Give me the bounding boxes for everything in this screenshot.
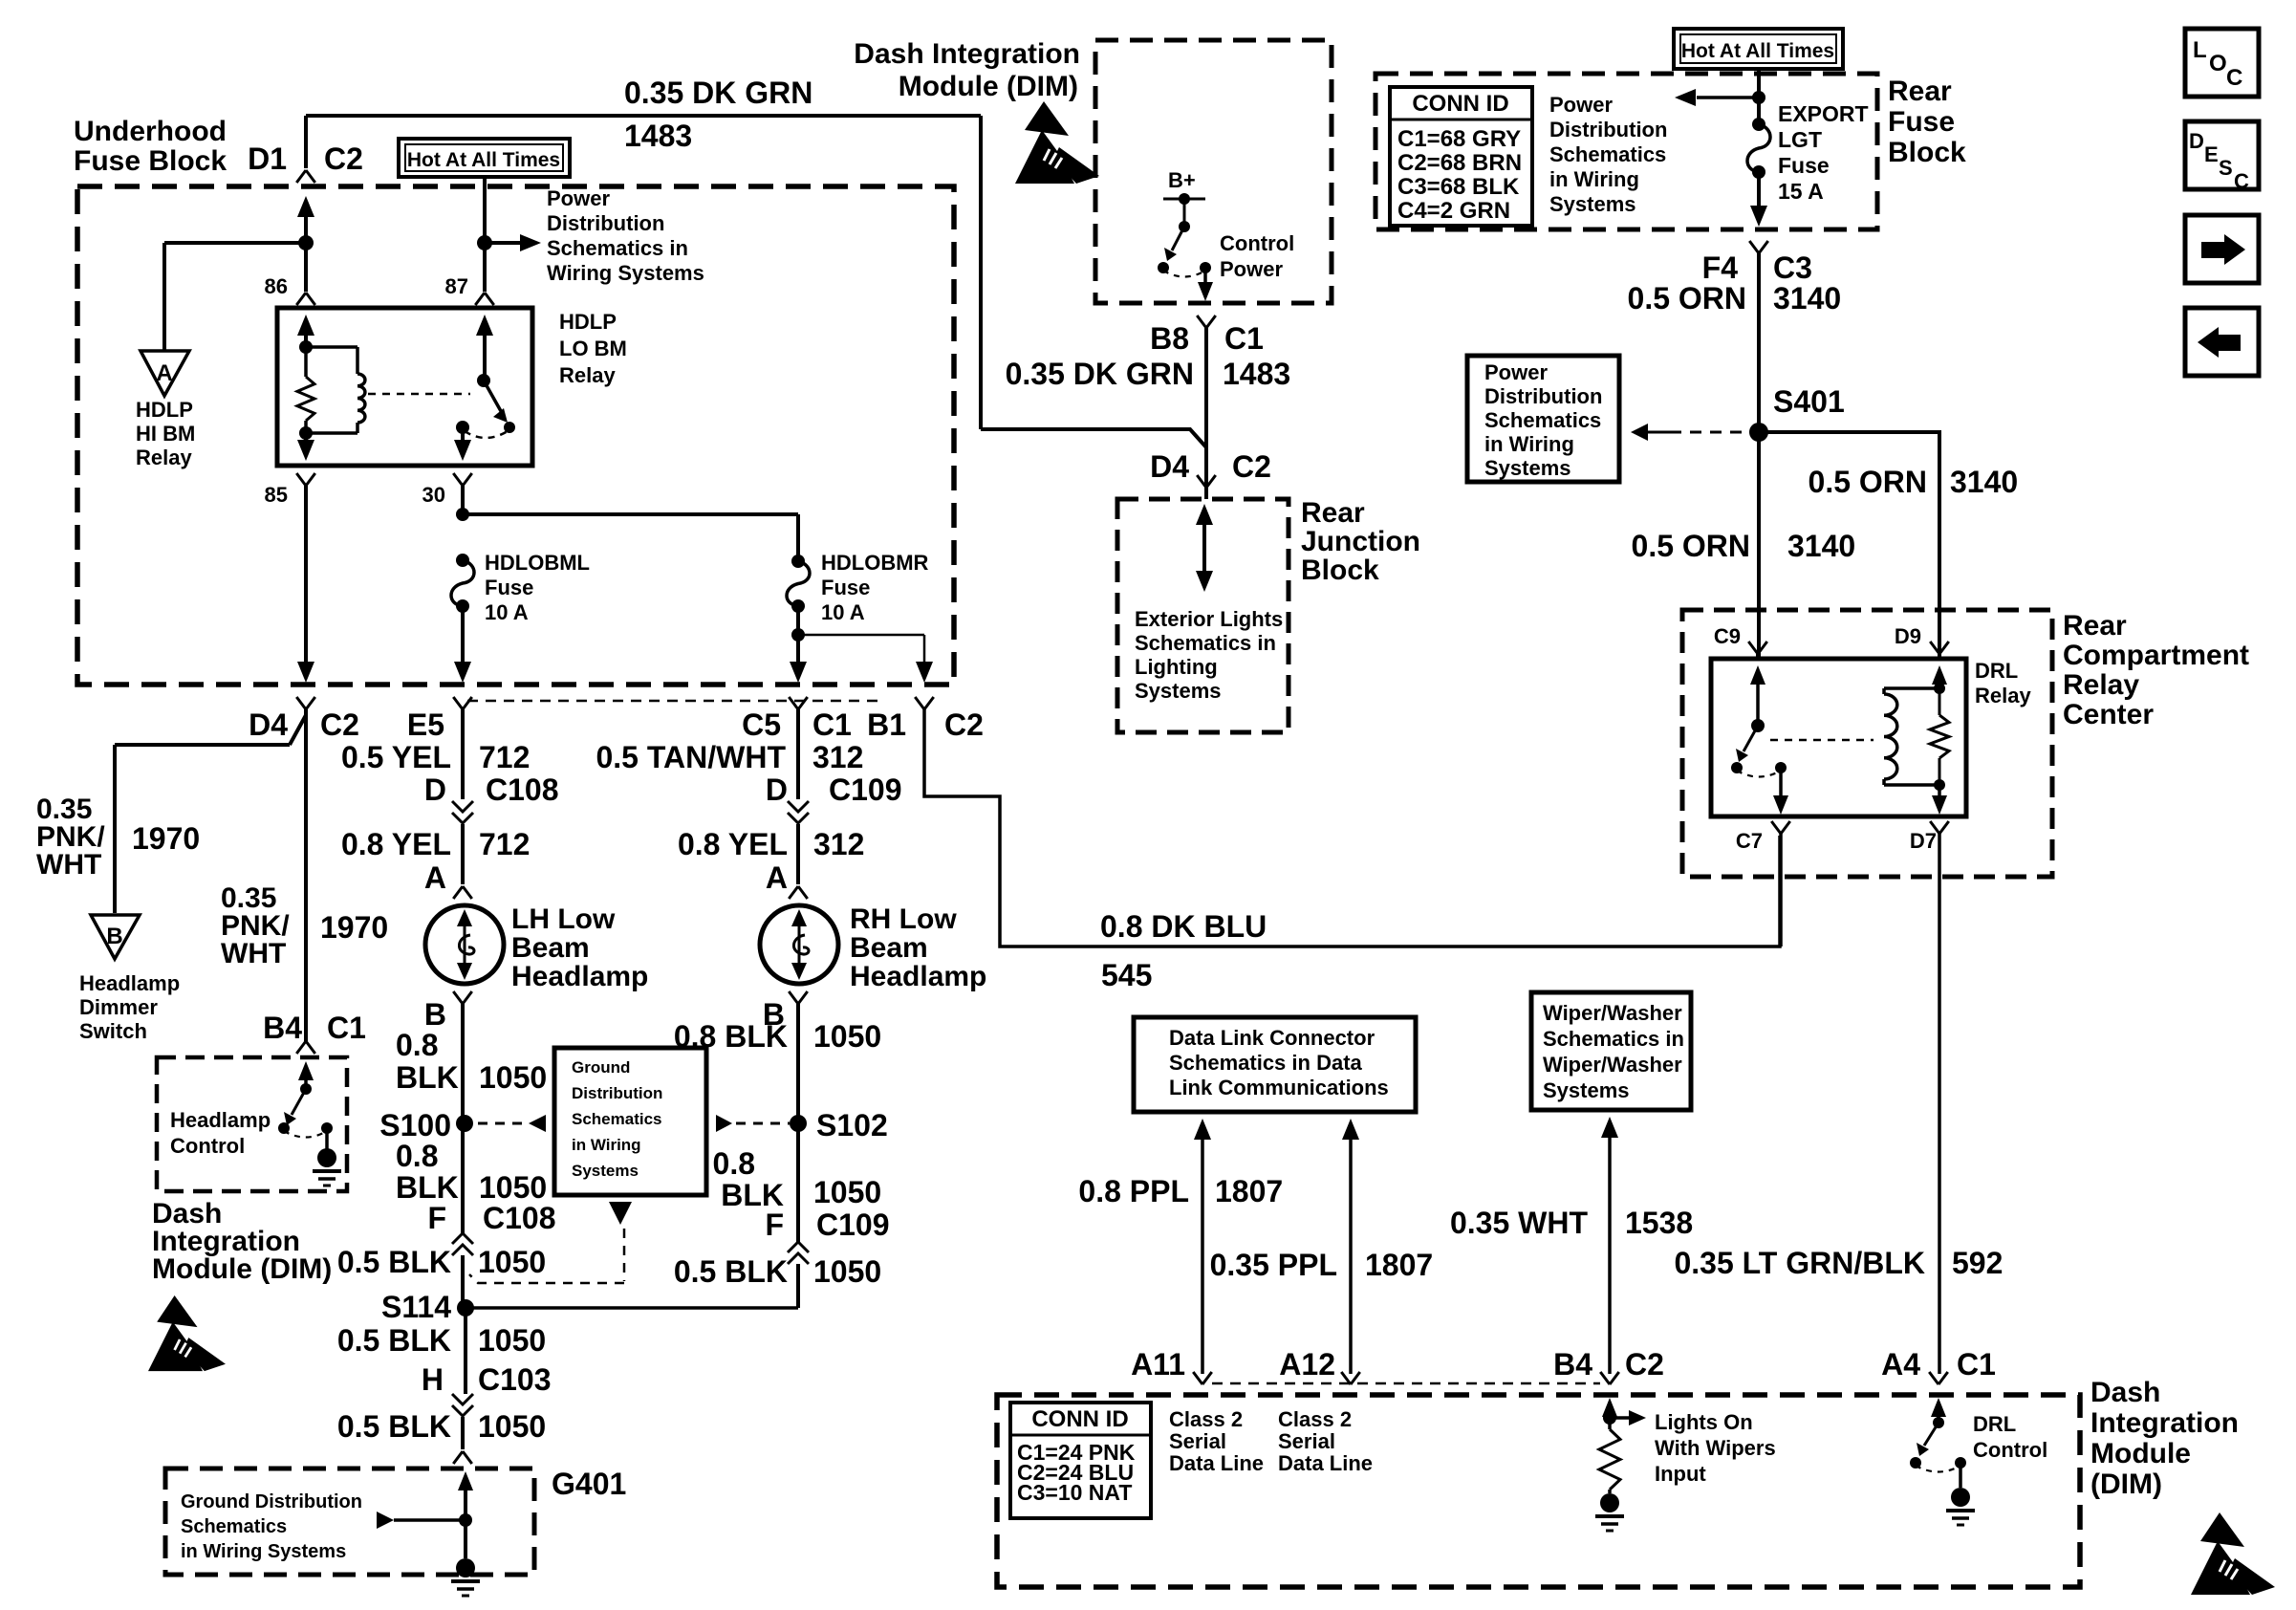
svg-text:312: 312 <box>812 740 863 774</box>
svg-text:3140: 3140 <box>1773 281 1841 315</box>
svg-text:0.8: 0.8 <box>396 1139 438 1173</box>
svg-text:1050: 1050 <box>813 1019 881 1054</box>
HDLOBMR fuse 10A <box>791 555 805 568</box>
DRL control switch contact to ground <box>1955 1457 1966 1469</box>
svg-text:F4: F4 <box>1702 250 1739 285</box>
relay coil node top <box>299 340 313 354</box>
"Hot At All Times" tag (rear) <box>1674 29 1843 69</box>
svg-text:Power: Power <box>1484 360 1548 384</box>
dashed reference arrow S100 to ground distribution box <box>478 1122 522 1125</box>
connector C5/C1 <box>789 697 808 709</box>
arrow A11 to data link box <box>1194 1119 1211 1140</box>
svg-text:DRL: DRL <box>1973 1412 2016 1436</box>
svg-text:HI BM: HI BM <box>136 422 195 446</box>
svg-text:Systems: Systems <box>1135 679 1222 703</box>
svg-text:B4: B4 <box>1553 1347 1592 1382</box>
DRL relay coil return arrow to D7 <box>1938 785 1941 795</box>
connector fork at pin 85 <box>296 473 315 486</box>
svg-text:Relay: Relay <box>136 446 192 469</box>
junction node HDLOBMR output <box>791 628 805 642</box>
svg-text:G401: G401 <box>552 1467 626 1501</box>
connector E5 <box>453 697 472 709</box>
svg-text:Lighting: Lighting <box>1135 655 1218 679</box>
svg-text:Schematics: Schematics <box>572 1110 662 1128</box>
svg-text:in Wiring Systems: in Wiring Systems <box>181 1541 346 1562</box>
svg-text:Beam: Beam <box>511 932 590 964</box>
wire branch to B1/C2 <box>798 634 924 637</box>
arrow to power distribution reference (rear) <box>1697 96 1759 99</box>
arrow to Power Distribution Schematics reference <box>485 241 522 245</box>
EXPORT LGT fuse 15A <box>1752 118 1765 131</box>
Power Distribution Schematics box (S401 reference) <box>1467 356 1619 482</box>
svg-text:L: L <box>2193 37 2207 63</box>
svg-text:Class 2: Class 2 <box>1278 1407 1352 1431</box>
DRL relay switch travel arc <box>1737 771 1781 777</box>
svg-text:DRL: DRL <box>1975 659 2018 683</box>
svg-text:B: B <box>106 924 122 949</box>
arrow B4/C2 to wiper box (0.35 WHT 1538) <box>1601 1117 1618 1138</box>
DRL relay coil feed arrow (D9) <box>1938 654 1941 659</box>
svg-text:C3: C3 <box>1773 250 1812 285</box>
wire C103 to G401 <box>461 1417 465 1449</box>
svg-text:C: C <box>2234 169 2249 193</box>
svg-text:Hot At All Times: Hot At All Times <box>1681 40 1834 62</box>
svg-text:LO BM: LO BM <box>559 337 627 360</box>
svg-text:1970: 1970 <box>132 821 200 856</box>
DESC navigation box <box>2185 121 2259 189</box>
svg-text:B8: B8 <box>1150 321 1189 356</box>
svg-text:Power: Power <box>547 186 610 210</box>
svg-text:Exterior Lights: Exterior Lights <box>1135 607 1283 631</box>
dashed reference arrow S401 to power distribution box <box>1631 424 1648 441</box>
svg-text:1970: 1970 <box>320 910 388 945</box>
svg-text:C5: C5 <box>742 707 781 742</box>
CONN ID table (rear fuse block) <box>1390 87 1532 226</box>
svg-text:1050: 1050 <box>478 1323 546 1358</box>
svg-text:86: 86 <box>265 274 288 298</box>
Dash Integration Module dashed box (bottom) <box>997 1395 2080 1587</box>
DRL relay coil <box>1884 686 1939 690</box>
ground reference arrow (G401) <box>377 1512 394 1529</box>
arrow out of rear fuse block <box>1757 172 1761 207</box>
svg-text:1050: 1050 <box>813 1175 881 1209</box>
svg-text:Dash Integration: Dash Integration <box>854 38 1080 70</box>
svg-text:F: F <box>427 1201 446 1235</box>
wire D7 to DIM A4/C1 (0.35 LT GRN/BLK 592) <box>1938 834 1941 1374</box>
DRL control input arrow <box>1931 1398 1946 1417</box>
svg-text:10 A: 10 A <box>485 600 529 624</box>
wire E5 to C108 pin D <box>461 709 465 799</box>
svg-text:Schematics: Schematics <box>1484 408 1601 432</box>
svg-text:0.35 LT GRN/BLK: 0.35 LT GRN/BLK <box>1674 1246 1925 1280</box>
svg-text:C9: C9 <box>1714 624 1741 648</box>
dashed reference arrow ground distribution box to S102 <box>716 1115 732 1132</box>
svg-text:1050: 1050 <box>813 1254 881 1289</box>
svg-text:A: A <box>424 860 446 895</box>
connector fork at pin 30 <box>453 473 472 486</box>
svg-text:C108: C108 <box>483 1201 556 1235</box>
svg-text:1483: 1483 <box>624 119 692 153</box>
svg-text:0.35 DK GRN: 0.35 DK GRN <box>624 76 812 110</box>
svg-text:WHT: WHT <box>36 849 101 881</box>
svg-text:C1: C1 <box>1957 1347 1996 1382</box>
relay switch pivot <box>477 374 490 387</box>
wire D4/C2 to headlamp dimmer switch B <box>115 709 306 913</box>
svg-text:Schematics: Schematics <box>181 1516 287 1537</box>
svg-text:Ground Distribution: Ground Distribution <box>181 1491 362 1512</box>
svg-text:E5: E5 <box>407 707 444 742</box>
svg-text:Block: Block <box>1301 555 1379 586</box>
headlamp control switch blade <box>292 1089 306 1115</box>
svg-text:C2: C2 <box>944 707 984 742</box>
svg-text:Relay: Relay <box>559 363 616 387</box>
svg-text:Distribution: Distribution <box>1549 118 1667 141</box>
svg-text:S100: S100 <box>379 1108 451 1142</box>
relay coil return arrow (pin 85) <box>304 433 308 441</box>
wire from Hot At All Times to relay pin 87 <box>483 177 487 243</box>
svg-text:(DIM): (DIM) <box>2090 1469 2162 1500</box>
svg-text:B4: B4 <box>263 1011 302 1045</box>
svg-text:C7: C7 <box>1736 829 1763 853</box>
DRL relay switch contact (open) <box>1731 762 1743 773</box>
svg-text:Schematics in: Schematics in <box>1543 1027 1684 1051</box>
svg-text:Module (DIM): Module (DIM) <box>152 1253 332 1285</box>
svg-text:30: 30 <box>422 483 445 507</box>
svg-text:Switch: Switch <box>79 1019 147 1043</box>
svg-text:Rear: Rear <box>2063 610 2127 642</box>
DRL control switch contact (open) <box>1910 1457 1921 1469</box>
wire to HDLP HI BM Relay reference A <box>164 243 306 351</box>
svg-text:1050: 1050 <box>478 1245 546 1279</box>
svg-text:0.5 BLK: 0.5 BLK <box>674 1254 788 1289</box>
lights-on reference arrow <box>1610 1416 1630 1420</box>
DRL relay resistor <box>1939 688 1941 715</box>
off-page reference triangle B (headlamp dimmer switch) <box>91 915 140 959</box>
junction node at 86 branch <box>298 235 314 250</box>
ESD symbol (left DIM) <box>148 1295 226 1371</box>
DRL relay switch blade <box>1744 726 1758 751</box>
svg-text:D7: D7 <box>1910 829 1937 853</box>
DRL relay switch common contact <box>1775 762 1787 773</box>
svg-text:Data Link Connector: Data Link Connector <box>1169 1026 1375 1050</box>
svg-text:Headlamp: Headlamp <box>170 1108 271 1132</box>
connector D4/C2 (left) <box>296 697 315 709</box>
svg-text:0.5 BLK: 0.5 BLK <box>337 1245 451 1279</box>
svg-text:0.8 YEL: 0.8 YEL <box>678 827 788 861</box>
svg-text:A12: A12 <box>1279 1347 1335 1382</box>
headlamp control switch travel arc <box>284 1131 327 1138</box>
lights-on-with-wipers input arrow <box>1602 1398 1617 1417</box>
relay switch common contact <box>456 421 469 434</box>
connector D7 <box>1930 821 1949 834</box>
connector C7 <box>1771 821 1790 834</box>
headlamp control switch contact to ground <box>321 1122 333 1134</box>
svg-text:S401: S401 <box>1773 384 1845 419</box>
svg-text:312: 312 <box>813 827 864 861</box>
connector B1/C2 <box>915 697 934 709</box>
DIM control power dashed box <box>1095 40 1332 303</box>
svg-text:Schematics in Data: Schematics in Data <box>1169 1051 1363 1075</box>
forward navigation box <box>2185 215 2259 283</box>
relay coil node bottom <box>299 426 313 440</box>
wire S114 tie to RH ground leg <box>466 1306 798 1310</box>
svg-text:Schematics: Schematics <box>1549 142 1666 166</box>
wire LH lamp B to S100 <box>461 1004 465 1123</box>
svg-text:C3=10 NAT: C3=10 NAT <box>1017 1480 1132 1505</box>
svg-text:0.5 ORN: 0.5 ORN <box>1628 281 1746 315</box>
relay coil <box>306 345 357 349</box>
svg-text:C1: C1 <box>812 707 852 742</box>
svg-text:87: 87 <box>445 274 468 298</box>
svg-text:A: A <box>766 860 788 895</box>
wire S102 to C109 pin F <box>796 1123 800 1242</box>
dashed reference below ground distribution box to S114 wire <box>609 1202 632 1225</box>
relay coil feed arrow (pin 86) <box>297 315 314 336</box>
headlamp control switch pivot <box>300 1083 312 1095</box>
svg-text:592: 592 <box>1952 1246 2003 1280</box>
connector B4/C1 <box>296 1041 315 1054</box>
svg-text:C3=68 BLK: C3=68 BLK <box>1397 174 1520 200</box>
svg-text:Fuse: Fuse <box>821 576 870 599</box>
wire HDLOBML fuse to E5 <box>461 606 465 664</box>
svg-text:C1=68 GRY: C1=68 GRY <box>1397 126 1521 152</box>
wire C109 F to S114 tie <box>796 1264 800 1308</box>
DRL relay switch pivot <box>1751 719 1765 732</box>
svg-text:Systems: Systems <box>1484 456 1571 480</box>
ground symbol G401 <box>464 1520 467 1558</box>
svg-text:0.5 BLK: 0.5 BLK <box>337 1409 451 1444</box>
DRL control switch blade <box>1924 1423 1939 1446</box>
CONN ID table (DIM) <box>1010 1403 1151 1518</box>
svg-text:545: 545 <box>1101 958 1152 992</box>
wire S114 to C103 pin H <box>464 1308 467 1394</box>
svg-text:0.35 PPL: 0.35 PPL <box>1210 1248 1337 1282</box>
svg-text:Module (DIM): Module (DIM) <box>899 71 1078 102</box>
svg-text:O: O <box>2209 51 2227 76</box>
wire Hot At All Times to EXPORT LGT fuse <box>1757 69 1761 124</box>
DRL relay switch feed arrow (C9) <box>1756 654 1760 659</box>
DRL relay coil node bottom <box>1934 779 1945 791</box>
svg-text:D9: D9 <box>1895 624 1921 648</box>
svg-text:Wiper/Washer: Wiper/Washer <box>1543 1053 1682 1077</box>
"Hot At All Times" tag (underhood) <box>399 139 570 177</box>
svg-text:Rear: Rear <box>1888 76 1952 107</box>
wire 0.8 DK BLU 545 from B1/C2 to DRL relay C7 <box>924 709 1780 946</box>
svg-text:Distribution: Distribution <box>572 1084 662 1102</box>
svg-text:Lights On: Lights On <box>1655 1410 1753 1434</box>
svg-text:F: F <box>765 1207 784 1242</box>
svg-text:0.8: 0.8 <box>713 1146 755 1181</box>
splice S401 <box>1749 423 1768 442</box>
svg-text:0.5 BLK: 0.5 BLK <box>337 1323 451 1358</box>
svg-text:Underhood: Underhood <box>74 116 227 147</box>
svg-text:Control: Control <box>1973 1438 2047 1462</box>
svg-text:0.8 PPL: 0.8 PPL <box>1078 1174 1189 1208</box>
svg-text:RH Low: RH Low <box>850 903 957 935</box>
svg-text:0.8 YEL: 0.8 YEL <box>341 827 451 861</box>
svg-text:1050: 1050 <box>479 1170 547 1205</box>
svg-text:0.8 DK BLU: 0.8 DK BLU <box>1100 909 1267 944</box>
svg-text:Serial: Serial <box>1169 1429 1226 1453</box>
svg-text:1050: 1050 <box>478 1409 546 1444</box>
relay switch blade <box>484 381 501 411</box>
DRL control switch pivot <box>1933 1417 1944 1428</box>
junction node G401 <box>459 1513 472 1527</box>
svg-text:With Wipers: With Wipers <box>1655 1436 1776 1460</box>
svg-text:0.5 ORN: 0.5 ORN <box>1632 529 1750 563</box>
Data Link Connector Schematics box <box>1134 1017 1416 1112</box>
svg-text:H: H <box>422 1362 444 1397</box>
svg-text:HDLP: HDLP <box>136 398 193 422</box>
connector fork at pin 87 <box>483 243 487 292</box>
svg-text:Module: Module <box>2090 1438 2191 1469</box>
wire pin 30 to fuses <box>461 486 465 514</box>
svg-text:Distribution: Distribution <box>547 211 664 235</box>
svg-text:10 A: 10 A <box>821 600 865 624</box>
svg-text:Headlamp: Headlamp <box>79 971 180 995</box>
headlamp control input arrow <box>298 1061 314 1080</box>
RH Low Beam Headlamp <box>760 905 838 984</box>
connector fork above G401 <box>453 1451 472 1464</box>
svg-text:HDLOBMR: HDLOBMR <box>821 551 929 575</box>
svg-text:D: D <box>424 772 446 807</box>
svg-text:Relay: Relay <box>1975 684 2031 707</box>
svg-text:D1: D1 <box>248 141 287 176</box>
svg-text:D: D <box>766 772 788 807</box>
control power switch <box>1183 199 1186 227</box>
wire RH lamp B to S102 <box>796 1004 800 1123</box>
svg-text:Data Line: Data Line <box>1278 1451 1373 1475</box>
svg-text:Schematics in: Schematics in <box>1135 631 1276 655</box>
svg-text:B1: B1 <box>867 707 906 742</box>
svg-text:C1: C1 <box>1224 321 1264 356</box>
svg-text:D4: D4 <box>1150 449 1189 484</box>
svg-text:Hot At All Times: Hot At All Times <box>407 149 560 171</box>
Headlamp Control dashed box <box>157 1057 347 1191</box>
svg-text:Schematics in: Schematics in <box>547 236 688 260</box>
svg-text:Center: Center <box>2063 699 2154 730</box>
svg-text:0.35 DK GRN: 0.35 DK GRN <box>1006 357 1194 391</box>
relay switch N.O. contact <box>504 422 515 433</box>
svg-text:S102: S102 <box>816 1108 888 1142</box>
svg-text:C2: C2 <box>1625 1347 1664 1382</box>
svg-text:D4: D4 <box>249 707 288 742</box>
connector D4/C2 (rear junction block) <box>1197 475 1216 488</box>
DRL relay dashed coupler <box>1770 739 1874 742</box>
svg-text:Compartment: Compartment <box>2063 640 2249 671</box>
svg-text:C: C <box>2226 65 2242 91</box>
relay resistor (parallel with coil) <box>304 347 308 377</box>
relay output arrow (pin 30) <box>461 427 465 441</box>
wire HDLOBMR fuse to C5/C1 <box>796 606 800 664</box>
connector F4/C3 <box>1749 241 1768 253</box>
DRL relay output arrow to C7 <box>1779 768 1783 795</box>
wire 0.35 PNK/WHT 1970 to headlamp control <box>304 715 308 1041</box>
svg-text:EXPORT: EXPORT <box>1778 101 1869 126</box>
svg-text:C2: C2 <box>1232 449 1271 484</box>
wire C108 F to S114 <box>461 1255 465 1308</box>
svg-text:HDLP: HDLP <box>559 310 617 334</box>
junction node on 87 feed <box>477 235 492 250</box>
arrow into G401 <box>458 1471 473 1490</box>
svg-text:C2: C2 <box>320 707 359 742</box>
svg-text:0.8 BLK: 0.8 BLK <box>674 1019 788 1054</box>
HDLP LO BM Relay box <box>277 308 532 466</box>
off-page reference triangle A (HDLP HI BM Relay) <box>141 351 189 396</box>
wire D4/C2 into rear junction block <box>1204 488 1208 499</box>
arrow into fuse block at D1 <box>297 196 314 217</box>
svg-text:Systems: Systems <box>1543 1078 1630 1102</box>
svg-text:Dimmer: Dimmer <box>79 995 158 1019</box>
ground symbol (DRL control) <box>1951 1488 1970 1507</box>
svg-text:Systems: Systems <box>1549 192 1636 216</box>
svg-text:A11: A11 <box>1131 1347 1185 1382</box>
svg-text:Distribution: Distribution <box>1484 384 1602 408</box>
svg-text:C109: C109 <box>816 1207 890 1242</box>
svg-text:Fuse: Fuse <box>485 576 533 599</box>
svg-text:Control: Control <box>1220 231 1294 255</box>
wire C108 to LH lamp pin A <box>461 824 465 884</box>
LOC navigation box <box>2185 29 2259 97</box>
svg-text:A4: A4 <box>1881 1347 1920 1382</box>
double arrow (rear junction block) <box>1196 504 1213 525</box>
Rear Compartment Relay Center dashed box <box>1682 610 2052 877</box>
lights-on junction node <box>1603 1411 1616 1425</box>
svg-text:Systems: Systems <box>572 1162 639 1180</box>
LH Low Beam Headlamp <box>425 905 504 984</box>
svg-text:Relay: Relay <box>2063 669 2139 701</box>
svg-text:S: S <box>2219 156 2233 180</box>
svg-text:BLK: BLK <box>396 1170 459 1205</box>
svg-text:C108: C108 <box>486 772 559 807</box>
Ground Distribution Schematics box (splices) <box>554 1048 706 1195</box>
svg-text:Link Communications: Link Communications <box>1169 1076 1389 1099</box>
svg-text:1483: 1483 <box>1223 357 1290 391</box>
svg-text:BLK: BLK <box>396 1060 459 1095</box>
connector B8/C1 <box>1197 315 1216 328</box>
wire C109 to RH lamp pin A <box>796 824 800 884</box>
wire pin 85 to D4/C2 <box>304 486 308 664</box>
svg-text:Junction: Junction <box>1301 526 1420 557</box>
svg-text:0.5 ORN: 0.5 ORN <box>1809 465 1927 499</box>
svg-text:D: D <box>2189 129 2204 153</box>
svg-text:in Wiring: in Wiring <box>572 1136 641 1154</box>
DRL relay coil node top <box>1934 683 1945 694</box>
ESD symbol (top DIM) <box>1015 101 1099 184</box>
arrow A12 to data link box <box>1342 1119 1359 1140</box>
svg-text:B+: B+ <box>1168 168 1196 192</box>
control power output arrow <box>1203 268 1207 282</box>
svg-text:712: 712 <box>479 740 530 774</box>
connector D1/C2 (underhood fuse block) <box>296 170 315 183</box>
svg-text:1807: 1807 <box>1365 1248 1433 1282</box>
junction node pin30 branch <box>456 508 469 521</box>
svg-text:1807: 1807 <box>1215 1174 1283 1208</box>
svg-text:Control: Control <box>170 1134 245 1158</box>
svg-text:0.5 TAN/WHT: 0.5 TAN/WHT <box>596 740 786 774</box>
svg-text:Fuse: Fuse <box>1778 153 1830 178</box>
svg-text:3140: 3140 <box>1950 465 2018 499</box>
wire 0.5 ORN 3140 to S401 <box>1757 253 1761 432</box>
svg-text:E: E <box>2204 142 2219 166</box>
svg-text:Headlamp: Headlamp <box>850 961 986 992</box>
svg-text:Ground: Ground <box>572 1058 630 1077</box>
relay coil-contact dashed coupler <box>368 393 470 396</box>
svg-text:1538: 1538 <box>1625 1206 1693 1240</box>
DRL control switch travel arc <box>1916 1466 1960 1472</box>
junction node rear fuse feed <box>1752 91 1765 104</box>
svg-text:Dash: Dash <box>2090 1377 2160 1408</box>
